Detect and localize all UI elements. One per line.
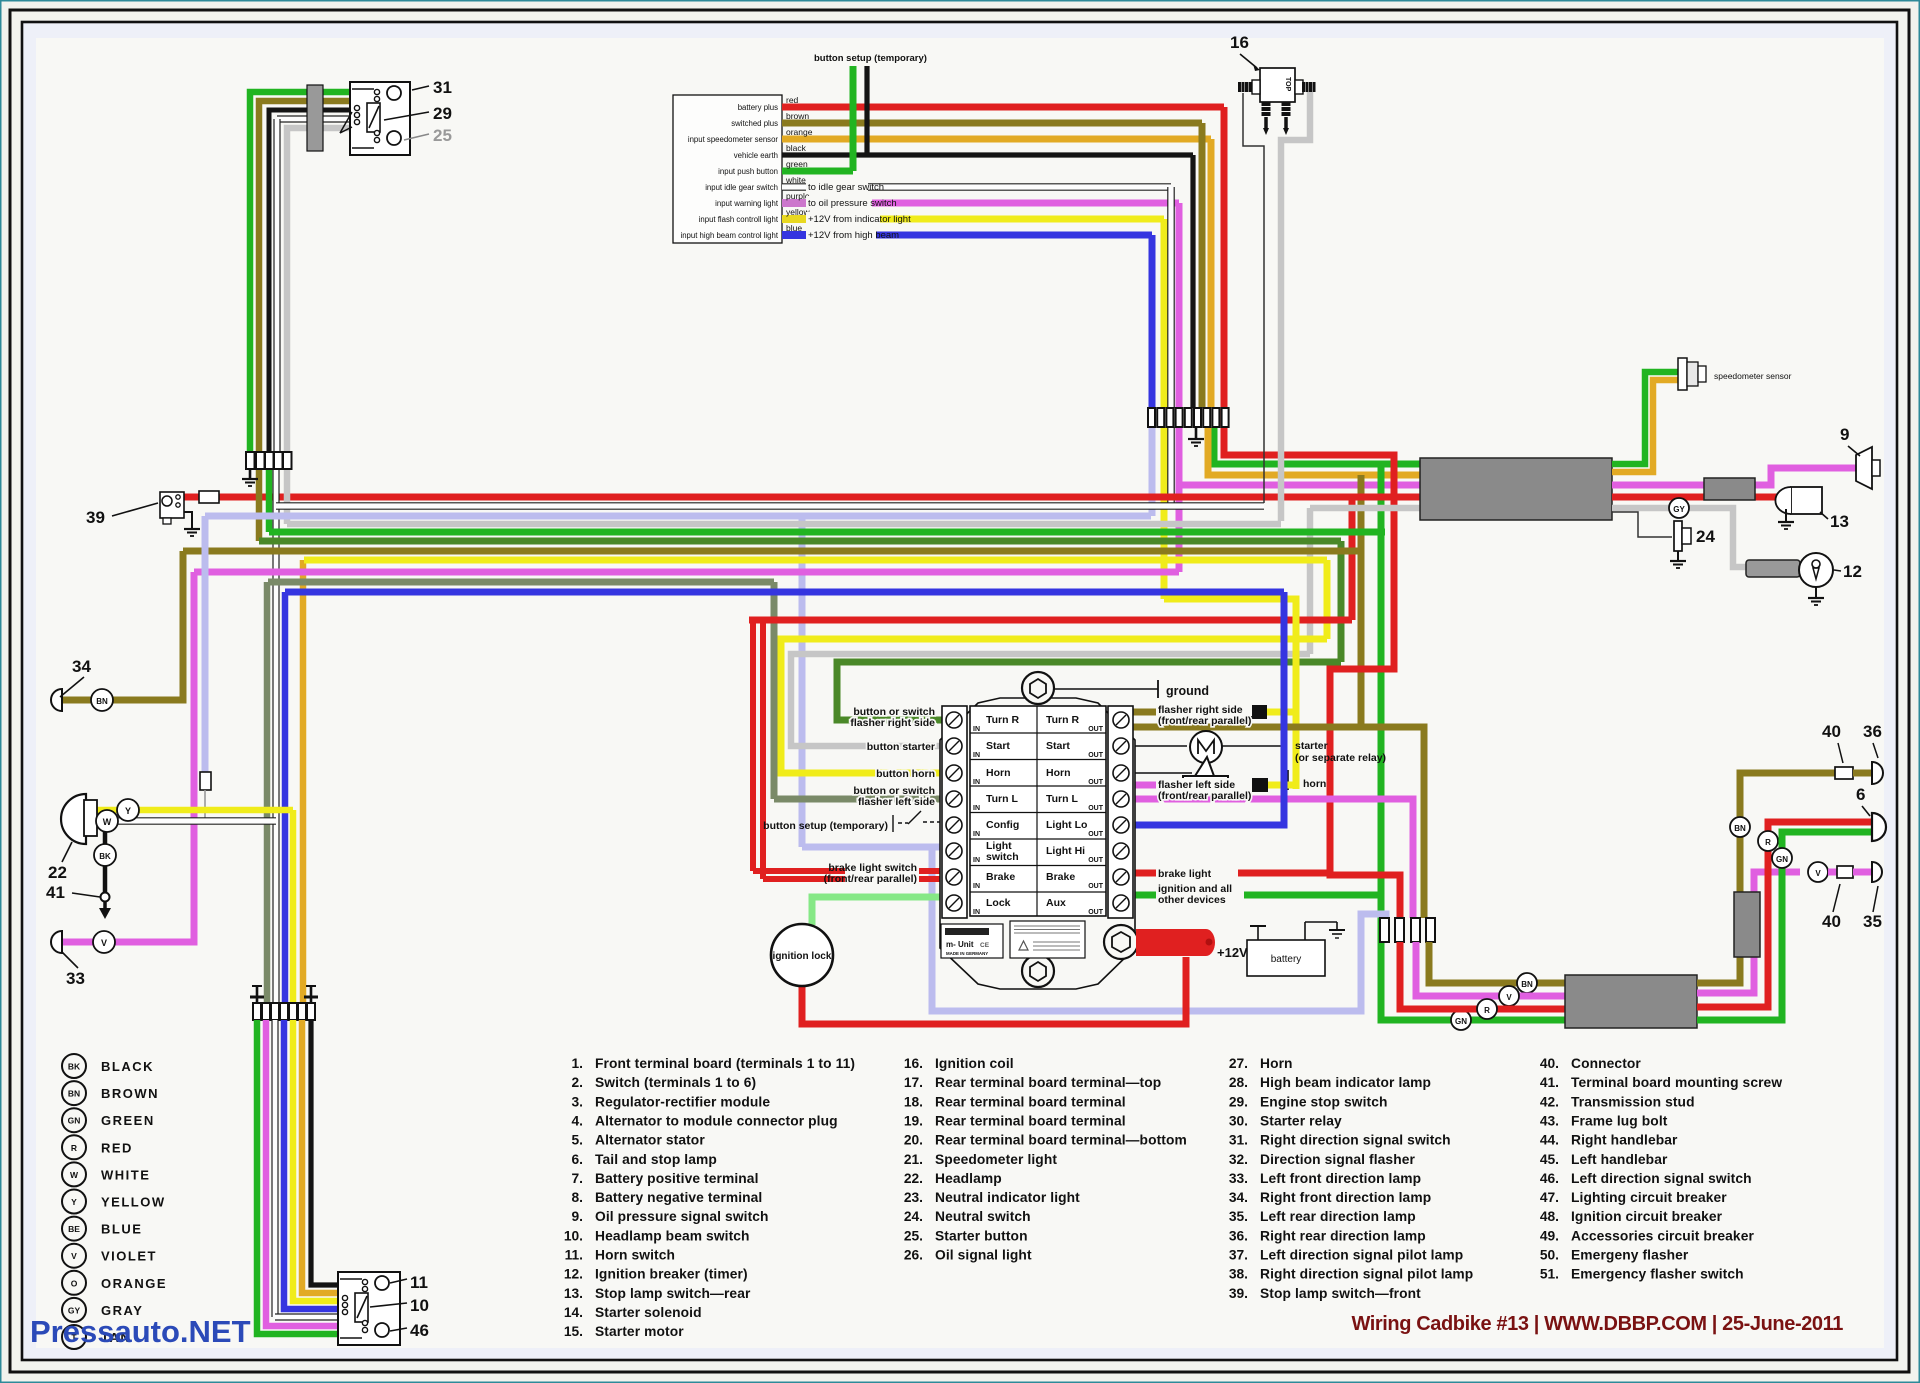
wire: green below pins to green run <box>266 469 273 532</box>
svg-text:Start: Start <box>1046 740 1070 752</box>
label 29 <box>384 112 429 120</box>
circle BN <box>1517 973 1537 993</box>
svg-text:Tail and stop lamp: Tail and stop lamp <box>595 1152 717 1167</box>
svg-text:Stop lamp switch—front: Stop lamp switch—front <box>1260 1286 1421 1301</box>
svg-text:input flash controll light: input flash controll light <box>699 215 779 224</box>
svg-text:Light Lo: Light Lo <box>1046 819 1087 831</box>
svg-text:40: 40 <box>1822 912 1841 931</box>
svg-text:switched plus: switched plus <box>731 119 778 128</box>
svg-text:BN: BN <box>96 697 108 706</box>
circle BN <box>91 689 113 711</box>
starter motor circle <box>1190 731 1222 763</box>
wire: green input row <box>782 168 853 175</box>
svg-text:GREEN: GREEN <box>101 1113 155 1128</box>
label bg flasher right side <box>1156 703 1252 716</box>
svg-text:Horn switch: Horn switch <box>595 1248 675 1263</box>
svg-text:Direction signal flasher: Direction signal flasher <box>1260 1152 1416 1167</box>
ignition lock <box>771 924 833 986</box>
ground under 9-pin connector <box>1195 427 1198 438</box>
svg-text:Brake: Brake <box>986 871 1015 883</box>
wire: green run y532 <box>269 529 1385 536</box>
svg-text:orange: orange <box>786 127 813 137</box>
lamp 6 tail and stop <box>1872 813 1886 841</box>
svg-text:Ignition coil: Ignition coil <box>935 1056 1014 1071</box>
wire: gray to Start IN (button starter) <box>1310 505 1420 512</box>
svg-text:other devices: other devices <box>1158 894 1226 906</box>
svg-text:Emergency flasher switch: Emergency flasher switch <box>1571 1267 1744 1282</box>
svg-text:16.: 16. <box>904 1056 923 1071</box>
ground <box>1778 521 1794 523</box>
wire: lavender tail to Light switch IN <box>802 844 941 851</box>
circle GN right <box>1772 848 1792 868</box>
wire: red battery plus path <box>1224 107 1400 918</box>
svg-text:15.: 15. <box>564 1324 583 1339</box>
svg-text:input push button: input push button <box>718 167 778 176</box>
svg-text:OUT: OUT <box>1088 779 1104 786</box>
switch blade 10 <box>355 1293 368 1322</box>
svg-text:Oil pressure signal switch: Oil pressure signal switch <box>595 1209 769 1224</box>
svg-text:IN: IN <box>973 857 980 864</box>
wire: magenta run y572 <box>194 569 1179 576</box>
wire: green below pin8 to harness 1 <box>1214 427 1420 464</box>
svg-text:+12V: +12V <box>1217 945 1248 960</box>
svg-text:IN: IN <box>973 752 980 759</box>
wire: brown input row <box>782 120 1202 127</box>
ground <box>1188 438 1204 440</box>
svg-text:Aux: Aux <box>1046 897 1066 909</box>
svg-text:Lighting circuit breaker: Lighting circuit breaker <box>1571 1190 1727 1205</box>
wire: blue Light Lo OUT <box>1133 592 1284 825</box>
svg-text:50.: 50. <box>1540 1248 1559 1263</box>
svg-text:Left rear direction lamp: Left rear direction lamp <box>1260 1209 1416 1224</box>
label 46 <box>390 1328 407 1331</box>
wire: brown to lamp 34 <box>60 551 183 700</box>
svg-text:Left direction signal switch: Left direction signal switch <box>1571 1171 1752 1186</box>
svg-text:Start: Start <box>986 740 1010 752</box>
wire: thin line coil to white run <box>1243 93 1264 503</box>
wire: white run y506 <box>276 502 1264 510</box>
component 12 ignition breaker <box>1746 560 1800 577</box>
svg-text:Lock: Lock <box>986 897 1011 909</box>
bolt above pin7 lower connector <box>306 985 316 987</box>
svg-text:Brake: Brake <box>1046 871 1075 883</box>
headlamp 22 <box>61 794 86 844</box>
svg-text:Headlamp beam switch: Headlamp beam switch <box>595 1228 750 1243</box>
svg-text:red: red <box>786 95 799 105</box>
wire: orange input row <box>782 136 1211 143</box>
svg-text:19.: 19. <box>904 1113 923 1128</box>
svg-text:IN: IN <box>973 805 980 812</box>
harness box 2 <box>1704 478 1755 500</box>
wire: blue run y592 <box>285 589 1284 596</box>
svg-text:13.: 13. <box>564 1286 583 1301</box>
svg-text:battery: battery <box>1271 954 1302 965</box>
svg-text:31: 31 <box>433 78 452 97</box>
wire: black vertical from switch 31 <box>269 110 350 452</box>
wire: staircase into block at y1293 <box>302 1020 338 1293</box>
svg-text:28.: 28. <box>1229 1075 1248 1090</box>
sub-labels on input wires <box>806 180 868 194</box>
wire: yellow from headlamp <box>95 807 293 814</box>
color code BLUE <box>62 1217 86 1241</box>
svg-text:button horn: button horn <box>876 768 935 780</box>
svg-text:TOP: TOP <box>1284 77 1291 92</box>
label 10 <box>370 1303 407 1307</box>
svg-text:23.: 23. <box>904 1190 923 1205</box>
wire: orange drop to pin8 <box>1208 139 1215 408</box>
svg-text:Starter motor: Starter motor <box>595 1324 684 1339</box>
svg-text:OUT: OUT <box>1088 831 1104 838</box>
wire: green vertical from switch 31 <box>250 92 350 452</box>
wire: gray vertical from switch 31 <box>287 128 350 452</box>
svg-text:39: 39 <box>86 508 105 527</box>
svg-text:IN: IN <box>973 831 980 838</box>
wire: thin line to neutral switch 24 <box>1612 512 1672 537</box>
svg-text:30.: 30. <box>1229 1113 1248 1128</box>
svg-text:Starter relay: Starter relay <box>1260 1113 1342 1128</box>
svg-text:YELLOW: YELLOW <box>101 1195 166 1210</box>
wire: brake double line lower <box>763 876 942 882</box>
svg-text:11: 11 <box>410 1273 428 1292</box>
svg-text:Turn L: Turn L <box>1046 793 1078 805</box>
svg-text:35.: 35. <box>1229 1209 1248 1224</box>
svg-text:Speedometer light: Speedometer light <box>935 1152 1057 1167</box>
wire: black button setup vertical <box>864 66 869 155</box>
circle GN <box>1451 1010 1471 1030</box>
svg-text:button setup (temporary): button setup (temporary) <box>814 53 927 64</box>
wire: magenta drop to pin4 <box>1176 203 1183 408</box>
svg-text:40.: 40. <box>1540 1056 1559 1071</box>
wire: gray vertical right <box>1307 508 1314 654</box>
wire: blue run corner down to lower connector <box>282 592 289 1003</box>
svg-text:44.: 44. <box>1540 1133 1559 1148</box>
wire: yellow from headlamp down to lower connector <box>290 810 297 1003</box>
color code RED <box>62 1135 86 1159</box>
svg-text:BE: BE <box>68 1224 80 1234</box>
svg-text:R: R <box>71 1143 77 1153</box>
wire: red brake light OUT <box>1133 870 1330 877</box>
svg-text:Ignition circuit breaker: Ignition circuit breaker <box>1571 1209 1723 1224</box>
lamp 33 <box>51 931 62 953</box>
svg-text:Emergeny flasher: Emergeny flasher <box>1571 1248 1689 1263</box>
color code VIOLET <box>62 1244 86 1268</box>
wire: black drop to pin6 <box>1190 155 1195 408</box>
svg-text:Switch (terminals 1 to 6): Switch (terminals 1 to 6) <box>595 1075 756 1090</box>
svg-text:25: 25 <box>433 126 452 145</box>
svg-text:input warning light: input warning light <box>715 199 779 208</box>
svg-text:Starter button: Starter button <box>935 1228 1028 1243</box>
color code WHITE <box>62 1162 86 1186</box>
svg-text:Horn: Horn <box>986 767 1011 779</box>
wire: red loop top to brake light switch <box>749 617 1352 624</box>
wire: red to tail lamp 6 <box>1697 822 1872 1007</box>
wire: yellow link flasher right <box>1267 709 1299 716</box>
label bg brake light switch <box>845 861 919 888</box>
wire: green Aux OUT <box>1133 892 1381 899</box>
svg-text:MADE IN GERMANY: MADE IN GERMANY <box>946 951 988 956</box>
svg-text:10: 10 <box>410 1296 429 1315</box>
wire: green vertical down right side <box>1381 464 1565 1020</box>
svg-text:(front/rear parallel): (front/rear parallel) <box>1158 790 1251 802</box>
svg-text:34.: 34. <box>1229 1190 1248 1205</box>
svg-text:Right rear direction lamp: Right rear direction lamp <box>1260 1228 1426 1243</box>
svg-text:to oil pressure switch: to oil pressure switch <box>808 198 897 209</box>
m-unit top bolt <box>1022 672 1054 704</box>
svg-text:21.: 21. <box>904 1152 923 1167</box>
svg-text:7.: 7. <box>571 1171 583 1186</box>
wire: main red run (battery feed) y497 <box>184 494 1420 501</box>
wire: white to switch 46 block <box>271 1020 278 1317</box>
svg-text:10.: 10. <box>564 1228 583 1243</box>
svg-text:Right handlebar: Right handlebar <box>1571 1133 1678 1148</box>
svg-text:48.: 48. <box>1540 1209 1559 1224</box>
svg-text:20.: 20. <box>904 1133 923 1148</box>
4-pin connector <box>1380 918 1389 942</box>
svg-text:1.: 1. <box>571 1056 583 1071</box>
wire: blue input row <box>782 231 806 239</box>
svg-text:brake light: brake light <box>1158 868 1212 880</box>
svg-text:5.: 5. <box>571 1133 583 1148</box>
color code YELLOW <box>62 1190 86 1214</box>
spark plug wires <box>1262 102 1271 106</box>
svg-text:V: V <box>1815 869 1821 878</box>
fuse on lavender <box>200 772 211 790</box>
wire: staircase into block at y1285 <box>311 1020 338 1285</box>
svg-text:33.: 33. <box>1229 1171 1248 1186</box>
svg-text:38.: 38. <box>1229 1267 1248 1282</box>
wire: white vertical from switch 31 <box>277 115 350 122</box>
svg-text:(front/rear parallel): (front/rear parallel) <box>1158 715 1251 727</box>
svg-text:36.: 36. <box>1229 1228 1248 1243</box>
color code BLACK <box>62 1054 86 1078</box>
9-pin connector <box>1148 408 1155 427</box>
svg-text:12: 12 <box>1843 562 1862 581</box>
wire: violet to lamp 33 <box>60 572 194 942</box>
wire: thin link fuse to headlamp white <box>204 790 206 821</box>
svg-text:OUT: OUT <box>1088 857 1104 864</box>
wire: black input row <box>782 152 1193 157</box>
svg-text:OUT: OUT <box>1088 883 1104 890</box>
wire: yellow drop to pin2 <box>1161 219 1168 408</box>
wire: yellow drop from indicator input <box>1161 427 1168 599</box>
wire: red below 4-pin to harness3 <box>1400 942 1565 1009</box>
svg-text:button starter: button starter <box>867 741 935 753</box>
wire: green to speedometer sensor <box>1612 372 1678 464</box>
svg-text:starter: starter <box>1295 740 1328 752</box>
svg-text:43.: 43. <box>1540 1113 1559 1128</box>
svg-text:47.: 47. <box>1540 1190 1559 1205</box>
ignition coil 16 <box>1260 68 1295 102</box>
label 31 <box>412 86 429 90</box>
svg-text:WHITE: WHITE <box>101 1167 150 1182</box>
circle V <box>93 931 115 953</box>
svg-text:GN: GN <box>1776 855 1788 864</box>
svg-text:49.: 49. <box>1540 1228 1559 1243</box>
svg-text:BROWN: BROWN <box>101 1086 159 1101</box>
wire: brown below pins to dark-green run corner <box>256 469 263 541</box>
wire: staircase into block at y1301 <box>293 1020 338 1301</box>
bolt above pin1 lower connector <box>252 985 262 987</box>
switch block 31/29/25 <box>350 82 410 155</box>
svg-text:18.: 18. <box>904 1094 923 1109</box>
svg-text:input idle gear switch: input idle gear switch <box>705 183 778 192</box>
svg-text:Left direction signal pilot la: Left direction signal pilot lamp <box>1260 1248 1463 1263</box>
wire: gray run y524 (to ignition coil) <box>287 521 1281 528</box>
wire: light green ignition lock to Lock IN <box>812 897 941 925</box>
svg-text:input high beam control light: input high beam control light <box>680 231 778 240</box>
svg-text:Frame lug bolt: Frame lug bolt <box>1571 1113 1668 1128</box>
svg-text:Stop lamp switch—rear: Stop lamp switch—rear <box>595 1286 751 1301</box>
svg-text:Y: Y <box>125 806 131 816</box>
wire: gray from coil down to gray run <box>1281 92 1310 521</box>
wire: yellow run y560 <box>304 557 1327 564</box>
svg-text:36: 36 <box>1863 722 1882 741</box>
fuse on red wire <box>199 491 219 503</box>
svg-text:Neutral switch: Neutral switch <box>935 1209 1031 1224</box>
svg-text:Connector: Connector <box>1571 1056 1641 1071</box>
label bg brake light <box>1156 864 1238 880</box>
input label block <box>673 95 782 243</box>
circle R <box>1477 999 1497 1019</box>
m-unit left terminal strip <box>942 706 967 918</box>
wire: orange below pin7 to harness 1 <box>1208 427 1420 475</box>
wire: magenta below pin4 to magenta run <box>1176 427 1183 572</box>
svg-text:33: 33 <box>66 969 85 988</box>
svg-text:34: 34 <box>72 657 91 676</box>
wire: green button setup vertical <box>850 66 857 171</box>
wire: lavender vertical to fuse <box>202 516 209 772</box>
svg-text:O: O <box>71 1278 78 1288</box>
gray bar connector <box>307 85 323 151</box>
lamp 35 <box>1872 862 1882 882</box>
svg-text:GN: GN <box>68 1116 81 1126</box>
svg-text:Rear terminal board terminal: Rear terminal board terminal <box>935 1113 1126 1128</box>
svg-text:black: black <box>786 143 807 153</box>
wire: lavender run y516 <box>205 513 1151 520</box>
svg-text:17.: 17. <box>904 1075 923 1090</box>
svg-text:ground: ground <box>1166 684 1209 698</box>
wire: green to tail lamp 6 <box>1697 832 1872 1020</box>
svg-text:Turn R: Turn R <box>1046 714 1079 726</box>
wire: blue drop to pin1 <box>1149 235 1156 408</box>
svg-text:Rear terminal board terminal—b: Rear terminal board terminal—bottom <box>935 1133 1187 1148</box>
wire: amber from yellow run corner down to lower connector <box>300 560 307 1003</box>
svg-text:Left handlebar: Left handlebar <box>1571 1152 1668 1167</box>
svg-text:BLUE: BLUE <box>101 1222 142 1237</box>
svg-text:W: W <box>103 817 112 827</box>
wire: white branch up from white run <box>1167 427 1175 506</box>
harness box 3 <box>1565 975 1697 1028</box>
svg-text:CE: CE <box>980 942 990 949</box>
svg-text:8.: 8. <box>571 1190 583 1205</box>
svg-text:W: W <box>70 1170 79 1180</box>
label bg flasher left side <box>1156 778 1252 791</box>
wire: yellow vertical right <box>1324 560 1331 639</box>
svg-text:13: 13 <box>1830 512 1849 531</box>
svg-text:R: R <box>1765 838 1771 847</box>
svg-text:V: V <box>1506 993 1512 1002</box>
svg-text:Transmission stud: Transmission stud <box>1571 1094 1695 1109</box>
svg-text:29.: 29. <box>1229 1094 1248 1109</box>
svg-text:Turn L: Turn L <box>986 793 1018 805</box>
wire: violet to oil pressure switch 9 <box>1612 468 1856 485</box>
svg-text:Ignition breaker (timer): Ignition breaker (timer) <box>595 1267 748 1282</box>
speedometer sensor <box>1678 358 1687 390</box>
arrow to ground <box>103 901 107 908</box>
svg-text:Starter solenoid: Starter solenoid <box>595 1305 702 1320</box>
svg-text:11.: 11. <box>565 1248 583 1263</box>
svg-text:IN: IN <box>973 779 980 786</box>
wire: sage run corner down to lower connector <box>264 582 271 1003</box>
svg-text:Rear terminal board terminal—t: Rear terminal board terminal—top <box>935 1075 1161 1090</box>
lamp 36 <box>1872 762 1883 784</box>
terminal screw 41 junction <box>101 893 110 902</box>
svg-text:white: white <box>785 175 806 185</box>
switch block 11/10/46 <box>338 1272 400 1345</box>
svg-text:battery plus: battery plus <box>738 103 778 112</box>
wire: yellow vertical to indicator input <box>1164 599 1296 789</box>
svg-text:m- Unit: m- Unit <box>946 940 974 949</box>
ground wire from top bolt <box>1054 688 1158 690</box>
circle Y <box>117 799 139 821</box>
wire: starter line <box>1133 745 1187 747</box>
svg-text:RED: RED <box>101 1140 133 1155</box>
svg-text:Front terminal board (terminal: Front terminal board (terminals 1 to 11) <box>595 1056 855 1071</box>
svg-text:6: 6 <box>1856 785 1865 804</box>
wire: magenta Turn L OUT <box>1133 782 1252 789</box>
5-pin connector <box>246 452 255 469</box>
color code TAN <box>62 1325 86 1349</box>
svg-text:input speedometer sensor: input speedometer sensor <box>688 135 779 144</box>
svg-text:Terminal board mounting screw: Terminal board mounting screw <box>1571 1075 1782 1090</box>
ground under pin1 <box>249 469 252 478</box>
circle V right <box>1808 862 1828 882</box>
svg-text:27.: 27. <box>1229 1056 1248 1071</box>
wire: dark-green vertical right <box>1338 541 1345 662</box>
svg-text:Battery negative terminal: Battery negative terminal <box>595 1190 762 1205</box>
wire: yellow input row <box>782 215 806 223</box>
svg-text:35: 35 <box>1863 912 1882 931</box>
connector on flasher left wire <box>1252 778 1268 792</box>
component 9 oil pressure switch <box>1856 447 1872 489</box>
svg-text:9: 9 <box>1840 425 1849 444</box>
svg-text:31.: 31. <box>1229 1133 1248 1148</box>
wire: staircase into block at y1309 <box>284 1020 338 1309</box>
color code GRAY <box>62 1298 86 1322</box>
wire: purple input row <box>782 199 806 207</box>
svg-text:32.: 32. <box>1229 1152 1248 1167</box>
svg-text:GN: GN <box>1455 1017 1467 1026</box>
battery <box>1247 940 1325 976</box>
svg-text:Oil signal light: Oil signal light <box>935 1248 1032 1263</box>
svg-text:VIOLET: VIOLET <box>101 1249 157 1264</box>
svg-text:46.: 46. <box>1540 1171 1559 1186</box>
svg-text:switch: switch <box>986 851 1019 863</box>
ground <box>1670 560 1686 562</box>
svg-text:OUT: OUT <box>1088 805 1104 812</box>
wire: gray to ignition breaker 12 <box>1612 508 1748 567</box>
svg-text:46: 46 <box>410 1321 429 1340</box>
wire: sage run y582 <box>268 579 774 586</box>
svg-text:42.: 42. <box>1540 1094 1559 1109</box>
svg-text:16: 16 <box>1230 33 1249 52</box>
wire: white drop to pin3 <box>1167 187 1175 408</box>
svg-text:Right direction signal pilot l: Right direction signal pilot lamp <box>1260 1267 1473 1282</box>
red stubs after brake label <box>921 868 939 874</box>
m-unit logo box <box>941 924 1003 958</box>
wire: white from headlamp <box>95 817 276 825</box>
svg-text:OUT: OUT <box>1088 726 1104 733</box>
